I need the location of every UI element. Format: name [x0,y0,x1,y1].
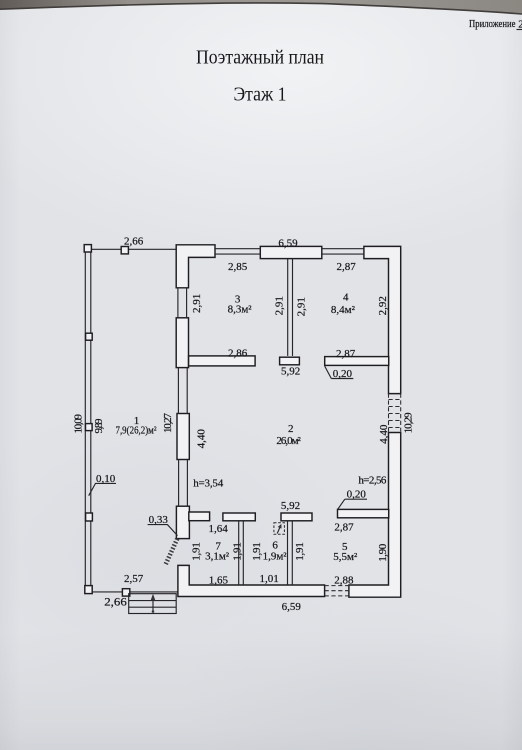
svg-text:6,59: 6,59 [282,601,302,613]
svg-text:2,92: 2,92 [377,296,389,315]
svg-text:1,91: 1,91 [251,542,263,561]
svg-text:2,66: 2,66 [104,597,127,609]
svg-text:1,65: 1,65 [209,574,229,586]
svg-text:2: 2 [518,19,522,31]
svg-text:2,91: 2,91 [296,297,308,316]
svg-text:5,5м²: 5,5м² [333,551,358,563]
svg-text:1,91: 1,91 [294,542,306,561]
svg-text:h=3,54: h=3,54 [193,478,224,490]
svg-text:1,01: 1,01 [259,573,278,585]
svg-text:0,10: 0,10 [96,473,116,485]
svg-text:10,29: 10,29 [402,412,414,434]
svg-text:Поэтажный план: Поэтажный план [196,47,324,69]
svg-text:2,91: 2,91 [273,296,285,315]
svg-text:4: 4 [343,291,349,303]
svg-text:9,89: 9,89 [93,418,105,434]
svg-text:2,91: 2,91 [191,294,203,313]
svg-text:6,59: 6,59 [278,238,298,250]
svg-text:5,92: 5,92 [281,366,300,378]
svg-text:Этаж 1: Этаж 1 [234,85,287,106]
svg-text:7,9(26,2)м²: 7,9(26,2)м² [116,425,158,437]
svg-text:1,90: 1,90 [377,543,389,562]
svg-text:1,9м²: 1,9м² [263,551,288,563]
svg-text:2,85: 2,85 [228,261,248,273]
svg-text:2,88: 2,88 [334,575,354,587]
svg-text:2: 2 [288,423,294,435]
svg-text:2,66: 2,66 [124,236,144,248]
svg-text:2,87: 2,87 [336,261,356,273]
svg-text:2,87: 2,87 [334,522,354,534]
svg-text:1,91: 1,91 [231,542,243,561]
svg-text:1,91: 1,91 [190,542,202,561]
svg-text:Приложение: Приложение [469,18,516,30]
svg-text:5,92: 5,92 [281,500,300,512]
svg-text:26,0м²: 26,0м² [276,435,301,447]
svg-text:2,86: 2,86 [228,347,248,359]
svg-text:4,40: 4,40 [378,424,390,444]
svg-text:8,3м²: 8,3м² [228,304,253,316]
svg-text:0,20: 0,20 [333,368,353,380]
svg-text:2,57: 2,57 [124,573,144,585]
svg-text:1,64: 1,64 [208,523,228,535]
svg-text:10,27: 10,27 [162,413,174,434]
svg-text:2,87: 2,87 [336,348,356,360]
svg-text:h=2,56: h=2,56 [358,475,387,487]
svg-text:10,09: 10,09 [72,414,84,434]
svg-text:6: 6 [272,539,278,551]
svg-text:8,4м²: 8,4м² [331,304,356,316]
svg-text:4,40: 4,40 [195,429,207,449]
svg-text:0,20: 0,20 [347,489,367,501]
svg-text:0,33: 0,33 [149,514,169,526]
svg-text:3,1м²: 3,1м² [205,551,230,563]
